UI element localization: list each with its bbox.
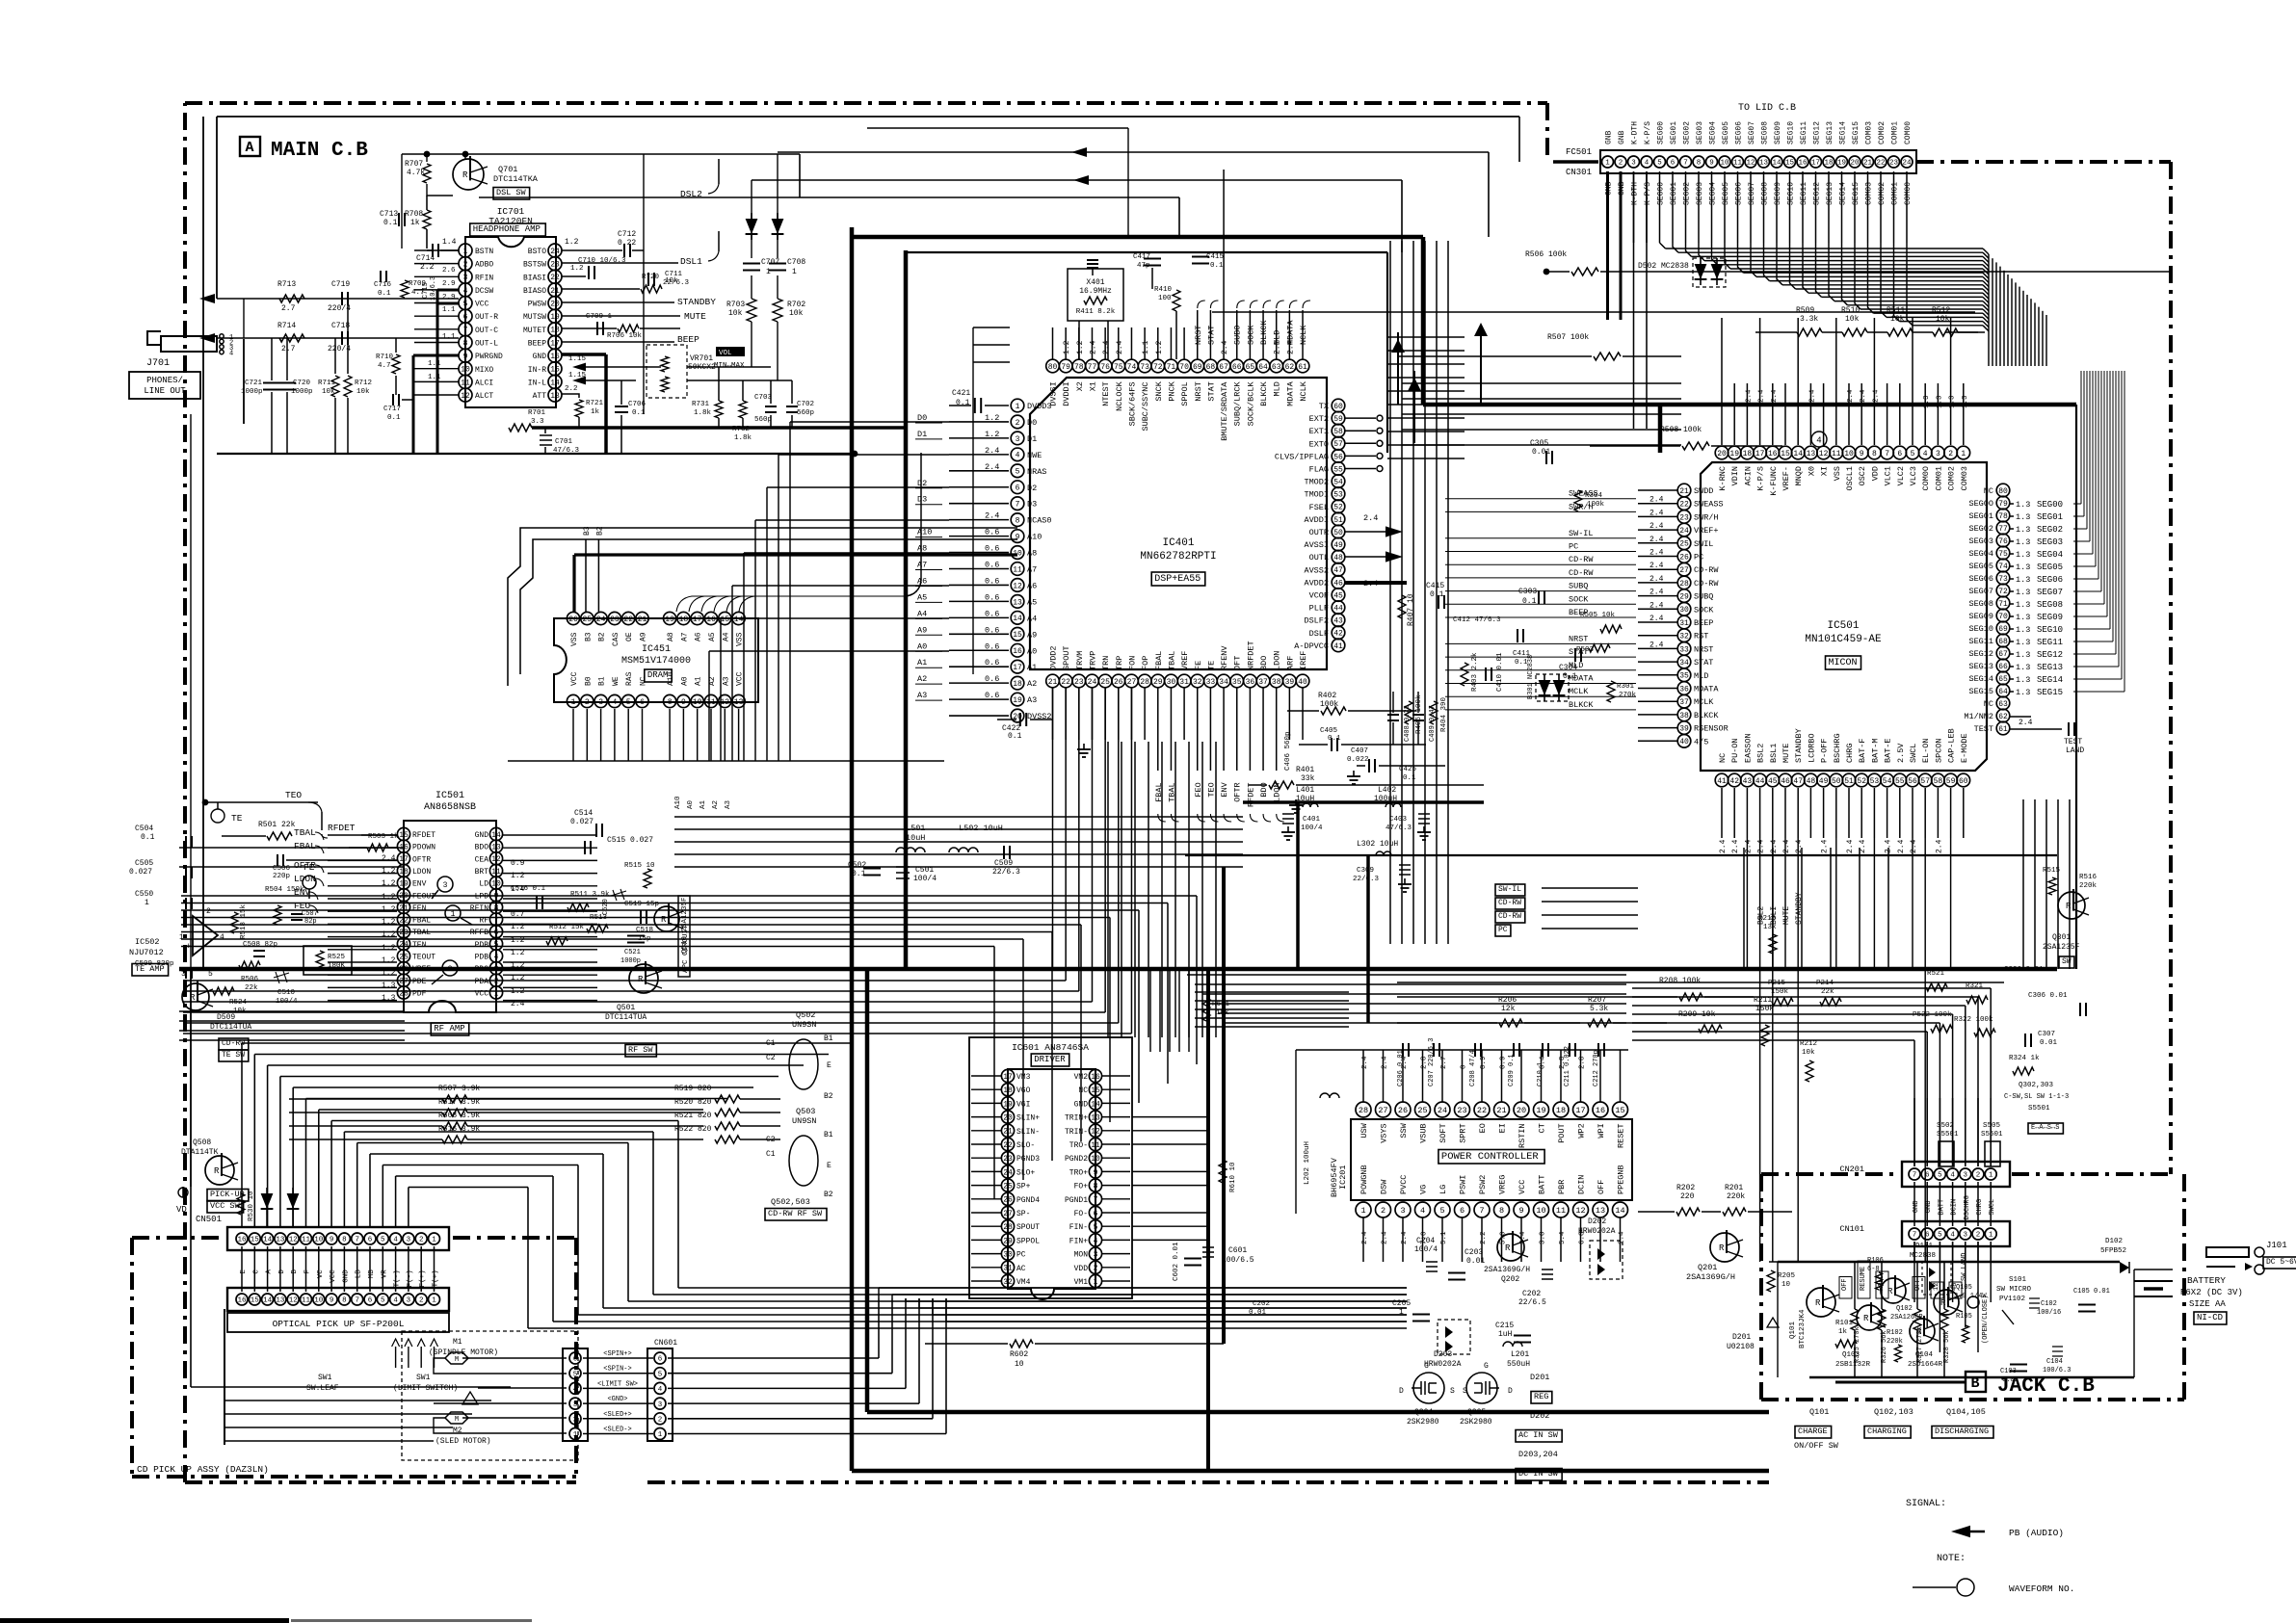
svg-text:A6: A6: [695, 632, 703, 641]
svg-text:SWR/H: SWR/H: [1694, 512, 1719, 522]
wire CN201 drops: [1913, 1098, 1915, 1166]
svg-text:25: 25: [1100, 678, 1110, 687]
svg-text:1.3: 1.3: [1936, 395, 1943, 408]
svg-text:PDB: PDB: [475, 954, 489, 962]
svg-text:6: 6: [1094, 1210, 1098, 1218]
svg-text:55: 55: [1895, 777, 1905, 786]
resistor R402: [1321, 707, 1346, 715]
title box A: [240, 137, 260, 156]
svg-text:COM01: COM01: [1934, 466, 1943, 491]
svg-text:PLLF: PLLF: [1309, 604, 1329, 614]
svg-text:1uH: 1uH: [1498, 1330, 1513, 1339]
svg-text:AC: AC: [1016, 1265, 1026, 1273]
svg-text:PC: PC: [1016, 1251, 1026, 1260]
svg-text:CD-RW: CD-RW: [1569, 568, 1594, 578]
IC501 pin 13 X0: [1805, 446, 1818, 459]
IC501 waveform mark 4: [1811, 432, 1827, 447]
svg-text:R501 22k: R501 22k: [258, 821, 296, 829]
IC601 pin 21 SLIN-: [1001, 1124, 1014, 1137]
IC701 pin 5 VCC: [459, 297, 472, 310]
wire power top bus rows: [1187, 974, 1626, 976]
svg-text:22: 22: [1876, 160, 1885, 168]
svg-text:SEG11: SEG11: [1968, 637, 1993, 646]
svg-text:BIASI: BIASI: [523, 274, 546, 282]
svg-text:SEG06: SEG06: [2037, 575, 2063, 585]
svg-text:R105: R105: [1956, 1313, 1972, 1321]
svg-text:39: 39: [1679, 724, 1689, 733]
svg-text:2.4: 2.4: [1649, 562, 1664, 570]
IC401 pin 6 D2: [1011, 481, 1024, 494]
svg-text:PWRGND: PWRGND: [475, 353, 503, 361]
CN601 pin 3: [654, 1398, 666, 1409]
svg-text:SEG04: SEG04: [1968, 549, 1993, 559]
svg-text:71: 71: [1167, 363, 1176, 372]
svg-text:E: E: [827, 1061, 831, 1070]
svg-text:1.3: 1.3: [2016, 600, 2030, 610]
svg-text:OUT-L: OUT-L: [475, 339, 498, 348]
svg-text:C1: C1: [766, 1150, 776, 1159]
wire left nest verticals: [789, 422, 791, 761]
svg-text:R507 100k: R507 100k: [1547, 333, 1589, 342]
svg-text:RF SW: RF SW: [628, 1045, 653, 1055]
svg-text:C2: C2: [766, 1136, 776, 1144]
svg-text:10/6.3: 10/6.3: [430, 276, 437, 301]
IC IC201 BH6954FV power controller body: [1351, 1119, 1632, 1200]
capacitor C520 C521: [611, 889, 626, 901]
svg-text:19: 19: [665, 615, 674, 624]
svg-text:PC: PC: [1694, 553, 1703, 563]
svg-text:E: E: [827, 1162, 831, 1170]
svg-text:57: 57: [1920, 777, 1930, 786]
svg-text:2: 2: [1619, 160, 1623, 168]
svg-text:16: 16: [1013, 647, 1022, 656]
svg-text:PDE: PDE: [412, 978, 427, 986]
IC451 pin 6 NC: [636, 694, 648, 707]
capacitor C407: [1368, 759, 1370, 772]
svg-text:20: 20: [1003, 1113, 1013, 1122]
svg-text:Q105: Q105: [1956, 1284, 1972, 1292]
svg-text:220k: 220k: [1887, 1338, 1903, 1346]
svg-text:NC: NC: [1078, 1086, 1088, 1095]
svg-text:SEG06: SEG06: [1968, 574, 1993, 584]
IC401 pin 32 FE: [1191, 674, 1204, 688]
svg-text:1: 1: [571, 698, 576, 707]
svg-text:BSL2: BSL2: [1756, 744, 1766, 763]
svg-text:NI-CD: NI-CD: [2197, 1313, 2223, 1322]
svg-text:SWIL: SWIL: [1694, 539, 1713, 549]
svg-text:22/6.5: 22/6.5: [1518, 1298, 1546, 1307]
wire right vertical bundle: [1389, 241, 1391, 944]
IC401 pin 10 A8: [1011, 546, 1024, 560]
diode D704: [772, 219, 784, 234]
svg-text:5.0: 5.0: [1500, 1231, 1508, 1244]
svg-text:S101: S101: [2009, 1276, 2027, 1284]
svg-text:LINE OUT: LINE OUT: [144, 386, 186, 396]
svg-text:R: R: [1887, 1287, 1893, 1296]
IC401 pin 11 A7: [1011, 563, 1024, 576]
svg-text:SEG09: SEG09: [1774, 182, 1782, 205]
svg-text:MUTE: MUTE: [1781, 744, 1791, 763]
svg-text:A0: A0: [1027, 646, 1037, 656]
IC201 pin 13 OFF: [1593, 1202, 1608, 1217]
svg-text:CN201: CN201: [1839, 1165, 1864, 1174]
IC501 pin 16 K-FUNC: [1766, 446, 1780, 459]
svg-text:SEG0O: SEG0O: [1968, 499, 1993, 509]
svg-text:RSENSOR: RSENSOR: [1694, 724, 1729, 734]
svg-text:1.3: 1.3: [2016, 512, 2030, 522]
capacitor C510: [274, 971, 289, 983]
svg-text:SEG02: SEG02: [1968, 524, 1993, 534]
svg-text:3: 3: [1631, 160, 1636, 168]
IC201 pin 23 SPRT: [1455, 1102, 1470, 1117]
svg-text:CHRG: CHRG: [1976, 1199, 1984, 1216]
IC501 pin 37 MCLK: [1677, 694, 1691, 708]
svg-text:R215: R215: [1758, 915, 1777, 923]
svg-text:3.0: 3.0: [1540, 1231, 1547, 1244]
svg-text:SEG14: SEG14: [1839, 121, 1848, 144]
svg-text:7.0: 7.0: [1421, 1231, 1429, 1244]
svg-text:1k: 1k: [410, 219, 420, 227]
svg-text:VSUB: VSUB: [1419, 1123, 1429, 1142]
FC501 pin 23 COM01: [1888, 156, 1900, 168]
IC501 pin 15 VREF-: [1779, 446, 1792, 459]
IC501 pin 6 VLC2: [1893, 446, 1907, 459]
wire IC401 pin drops staircase C: [1052, 688, 1054, 970]
wire pc top components row: [1295, 1050, 1297, 1214]
IC451 pin 1 VCC: [567, 694, 579, 707]
svg-text:21: 21: [1048, 678, 1058, 687]
IC401 pin 75 NCLOCK: [1112, 359, 1125, 373]
svg-text:R208 100k: R208 100k: [1659, 977, 1701, 985]
svg-text:SEG05: SEG05: [2037, 563, 2063, 572]
svg-text:DSL1: DSL1: [680, 256, 702, 267]
resistor R713: [279, 295, 304, 302]
svg-text:2.4: 2.4: [1744, 839, 1753, 853]
CN501 pin 4: [390, 1233, 402, 1244]
svg-text:M1: M1: [453, 1338, 462, 1347]
svg-text:MC2838: MC2838: [1910, 1252, 1936, 1260]
svg-text:0.6: 0.6: [985, 691, 999, 700]
RF amp pin 25 TEOUT: [397, 950, 409, 962]
pickup connector pin 5: [569, 1368, 581, 1379]
svg-text:C502: C502: [848, 861, 866, 870]
svg-text:16: 16: [706, 615, 716, 624]
svg-text:4.7: 4.7: [378, 362, 391, 370]
wire IC401 bottom net labels: [1157, 740, 1159, 771]
svg-text:SEG13: SEG13: [1826, 182, 1834, 205]
svg-text:2SK2980: 2SK2980: [1460, 1418, 1492, 1427]
svg-text:VR: VR: [381, 1270, 388, 1279]
svg-text:SPRT: SPRT: [1459, 1123, 1468, 1142]
IC401 pin 70 SPPOL: [1177, 359, 1191, 373]
svg-text:BLKCK: BLKCK: [1259, 380, 1269, 406]
IC451 pin 13 VCC: [732, 694, 745, 707]
svg-text:SSW: SSW: [1399, 1122, 1409, 1138]
svg-text:2.4: 2.4: [1731, 839, 1740, 853]
svg-text:5.3k: 5.3k: [1590, 1005, 1608, 1013]
RF amp pin 22 FBAL: [397, 913, 409, 926]
CN501 mating pin 9: [326, 1294, 337, 1305]
svg-text:D3: D3: [917, 495, 927, 505]
svg-text:A5: A5: [1027, 597, 1037, 607]
wire pc bottom stubs: [1362, 1217, 1364, 1262]
svg-text:75: 75: [1998, 550, 2008, 559]
svg-text:RFDET: RFDET: [328, 823, 356, 833]
svg-text:0.1: 0.1: [387, 414, 401, 422]
svg-text:0.1: 0.1: [1008, 732, 1022, 741]
svg-text:C706: C706: [628, 401, 647, 408]
svg-text:7: 7: [1683, 160, 1688, 168]
svg-text:2: 2: [1381, 1206, 1386, 1216]
svg-text:R: R: [661, 915, 667, 925]
svg-text:BH6954FV: BH6954FV: [1330, 1157, 1339, 1197]
wire DRAM bus arcs: [676, 453, 921, 612]
svg-text:COM03: COM03: [1865, 121, 1874, 144]
svg-text:SEG11: SEG11: [2037, 638, 2063, 647]
svg-text:WAVEFORM NO.: WAVEFORM NO.: [2009, 1584, 2074, 1594]
IC701 pin 24 BSTO: [548, 244, 562, 257]
svg-text:SEG13: SEG13: [1826, 121, 1834, 144]
svg-text:35: 35: [1232, 678, 1242, 687]
svg-text:23: 23: [1457, 1106, 1466, 1115]
svg-text:R525: R525: [328, 954, 346, 961]
svg-text:EO: EO: [1478, 1123, 1488, 1133]
svg-text:SEG05: SEG05: [1722, 121, 1730, 144]
svg-text:EXT1: EXT1: [1309, 427, 1329, 436]
svg-text:PC: PC: [1569, 542, 1578, 552]
svg-text:46: 46: [1781, 777, 1790, 786]
wire CN201-CN101 BATT: [1939, 1182, 1940, 1226]
svg-text:1.15: 1.15: [568, 355, 587, 363]
svg-text:4: 4: [1420, 1206, 1425, 1216]
svg-text:STAT: STAT: [1206, 326, 1216, 345]
IC201 pin 22 EO: [1474, 1102, 1490, 1117]
IC601 pin 1 VM1: [1089, 1274, 1101, 1287]
svg-text:72: 72: [1998, 588, 2008, 596]
IC451 pin 24 B2: [594, 612, 607, 624]
wire DRAM B-bus: [585, 539, 587, 612]
svg-text:C716: C716: [374, 281, 392, 289]
svg-text:4: 4: [1816, 436, 1821, 446]
svg-text:18: 18: [399, 868, 409, 877]
svg-text:COM03: COM03: [1960, 466, 1969, 491]
wire rail 471: [217, 453, 855, 455]
svg-text:1.2: 1.2: [1063, 340, 1071, 354]
svg-text:SEG12: SEG12: [2037, 650, 2063, 660]
svg-text:29: 29: [1153, 678, 1163, 687]
svg-text:3: 3: [463, 274, 468, 282]
IC601 pin 20 SLIN+: [1001, 1111, 1014, 1123]
IC451 pin 17 A6: [691, 612, 703, 624]
svg-text:20: 20: [1717, 450, 1727, 458]
wire SLED-: [583, 1433, 653, 1435]
svg-text:MUTE: MUTE: [1782, 906, 1791, 925]
svg-text:10: 10: [1015, 1360, 1024, 1369]
svg-text:33: 33: [1679, 645, 1689, 654]
svg-text:PHONES/: PHONES/: [146, 376, 183, 385]
svg-text:SEG02: SEG02: [2037, 525, 2063, 535]
CN601 pin 1: [654, 1428, 666, 1440]
svg-text:9: 9: [681, 698, 686, 707]
svg-text:31: 31: [1179, 678, 1189, 687]
svg-text:M: M: [455, 1416, 459, 1424]
wire TEO: [205, 801, 318, 803]
svg-text:18: 18: [550, 327, 560, 335]
transistor Q509 TE SW: [182, 983, 209, 1010]
svg-text:58: 58: [1934, 777, 1943, 786]
svg-text:53: 53: [1870, 777, 1880, 786]
svg-text:SW-IL: SW-IL: [1569, 529, 1594, 538]
svg-text:TE SW: TE SW: [222, 1051, 245, 1060]
RF amp pin 2 PDA: [489, 974, 502, 986]
svg-text:2.4: 2.4: [382, 854, 396, 863]
IC601 pin 12 TRIN-: [1089, 1124, 1101, 1137]
svg-text:MDATA: MDATA: [1285, 320, 1295, 345]
svg-text:0.6: 0.6: [985, 544, 999, 554]
IC401 pin 9 A10: [1011, 530, 1024, 543]
RF amp pin 24 TEN: [397, 937, 409, 950]
svg-text:50: 50: [1333, 529, 1343, 537]
svg-text:<SPIN->: <SPIN->: [603, 1366, 631, 1374]
svg-text:0.1: 0.1: [852, 870, 866, 878]
IC601 pin 10 PGND2: [1089, 1152, 1101, 1165]
svg-text:1.3: 1.3: [1923, 395, 1931, 408]
wire right horizontals to micon: [1387, 336, 1465, 338]
svg-text:1.2: 1.2: [1155, 340, 1164, 354]
IC401 pin 73 SUBC/SSYNC: [1138, 359, 1151, 373]
svg-text:SUBQ: SUBQ: [1694, 592, 1713, 602]
svg-text:BATT: BATT: [1938, 1199, 1945, 1216]
svg-text:B2: B2: [824, 1191, 833, 1199]
svg-text:VREF-: VREF-: [1781, 466, 1791, 491]
CN601 pin 2: [654, 1413, 666, 1425]
resistor R304: [1574, 490, 1582, 511]
svg-text:SEG05: SEG05: [1722, 182, 1730, 205]
IC401 pin 18 A2: [1011, 676, 1024, 690]
CN501 pin 2: [415, 1233, 427, 1244]
CN101 pin 3: [1960, 1228, 1971, 1240]
svg-text:OUT-C: OUT-C: [475, 327, 498, 335]
svg-text:A2: A2: [1027, 679, 1037, 689]
svg-text:7: 7: [1913, 1232, 1917, 1240]
arrow up bus: [1474, 323, 1488, 336]
svg-text:SPCON: SPCON: [1934, 738, 1943, 763]
svg-text:K-P/S: K-P/S: [1644, 182, 1652, 205]
svg-text:ON/OFF SW: ON/OFF SW: [1794, 1441, 1839, 1451]
svg-text:VSS: VSS: [736, 632, 745, 646]
svg-text:C520: C520: [602, 899, 610, 915]
IC401 pin 60 TX: [1332, 399, 1345, 412]
RF amp pin 20 FEOUT: [397, 889, 409, 902]
IC501 pin 46 MUTE: [1779, 773, 1792, 787]
svg-text:Q202: Q202: [1501, 1275, 1519, 1284]
svg-text:5: 5: [381, 1297, 385, 1305]
svg-text:MAIN C.B: MAIN C.B: [271, 140, 368, 162]
svg-text:OFF: OFF: [1841, 1278, 1849, 1291]
svg-text:SEG10: SEG10: [1787, 182, 1796, 205]
wire LIMIT SW: [583, 1387, 653, 1389]
svg-text:2.4: 2.4: [1808, 389, 1816, 403]
svg-text:C104: C104: [2046, 1358, 2063, 1366]
wire RF amp right wires: [503, 834, 597, 836]
IC501 pin 35 MLD: [1677, 668, 1691, 682]
transistor Q102: [1881, 1278, 1906, 1303]
svg-text:R411 8.2k: R411 8.2k: [1076, 308, 1116, 316]
svg-text:SEG12: SEG12: [1968, 649, 1993, 659]
svg-text:A7: A7: [1027, 565, 1037, 575]
svg-text:23: 23: [399, 929, 409, 937]
svg-text:Q101: Q101: [1789, 1321, 1797, 1339]
wire IC401 top stubs: [1052, 327, 1054, 359]
svg-text:5: 5: [1938, 1172, 1942, 1180]
svg-text:5: 5: [381, 1237, 385, 1244]
svg-text:K-DTH: K-DTH: [1631, 121, 1640, 144]
svg-text:1.2: 1.2: [382, 867, 396, 876]
svg-text:1.3: 1.3: [2016, 563, 2030, 572]
svg-text:27: 27: [1679, 566, 1689, 575]
svg-text:4: 4: [1950, 1172, 1955, 1180]
svg-text:2.8: 2.8: [1559, 1056, 1567, 1069]
connector J701 phones/line out: [161, 336, 217, 352]
svg-text:SWDD: SWDD: [1694, 486, 1713, 496]
svg-text:R602: R602: [1010, 1350, 1028, 1359]
svg-text:TO LID C.B: TO LID C.B: [1738, 103, 1796, 114]
wire pc top stubs: [1362, 1050, 1364, 1102]
svg-text:GND: GND: [342, 1270, 350, 1283]
transistor Q201: [1710, 1233, 1739, 1262]
svg-text:C-SW,SL SW 1-1-3: C-SW,SL SW 1-1-3: [2004, 1093, 2069, 1101]
svg-text:NRST: NRST: [1194, 326, 1203, 345]
svg-text:73: 73: [1998, 575, 2008, 584]
svg-text:10: 10: [1091, 1155, 1100, 1164]
svg-text:23: 23: [550, 261, 560, 270]
resistor R702: [773, 299, 782, 322]
svg-text:52: 52: [1333, 504, 1343, 512]
svg-text:18: 18: [679, 615, 689, 624]
svg-text:17: 17: [1811, 160, 1820, 168]
svg-text:C306 0.01: C306 0.01: [2004, 966, 2044, 974]
svg-text:A9: A9: [640, 632, 648, 641]
svg-text:UN9SN: UN9SN: [792, 1020, 817, 1030]
optical pick up label box: [227, 1313, 449, 1332]
IC401 pin 48 OUTL: [1332, 550, 1345, 563]
wire crystal legs: [1078, 321, 1080, 359]
svg-text:0.6: 0.6: [985, 641, 999, 651]
svg-text:3: 3: [407, 1297, 411, 1305]
svg-text:VG: VG: [1419, 1185, 1429, 1194]
svg-text:23: 23: [1889, 160, 1899, 168]
CN201 pin 2: [1972, 1168, 1984, 1180]
svg-text:100/16: 100/16: [2037, 1309, 2061, 1317]
wire top rail: [217, 116, 1519, 118]
wire thick mid bus: [179, 967, 2057, 972]
pickup connector pin 4: [569, 1382, 581, 1394]
capacitor C706: [615, 406, 628, 407]
svg-text:1k: 1k: [1838, 1328, 1848, 1336]
capacitor C701: [540, 435, 552, 445]
svg-text:C519 15p: C519 15p: [624, 901, 659, 908]
svg-text:C505: C505: [135, 859, 153, 868]
svg-text:PC: PC: [1498, 926, 1508, 934]
svg-text:1: 1: [658, 1431, 663, 1439]
svg-text:2.4: 2.4: [1363, 513, 1378, 523]
svg-text:LCDRBO: LCDRBO: [1807, 733, 1816, 763]
svg-text:R: R: [1916, 1327, 1922, 1337]
svg-text:1: 1: [179, 933, 184, 942]
wire mid bundle 2: [179, 1010, 405, 1012]
svg-text:SPOUT: SPOUT: [1062, 645, 1071, 670]
IC451 pin 26 VSS: [567, 612, 579, 624]
